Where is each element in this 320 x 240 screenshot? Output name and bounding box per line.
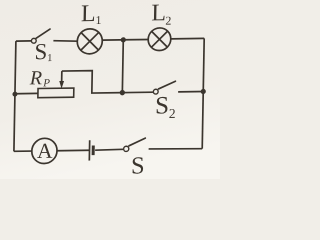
wire: right vertical <box>202 38 204 148</box>
ammeter A1 <box>32 138 58 164</box>
rheostat RP body <box>38 88 74 98</box>
label RP <box>30 71 50 87</box>
node: middle junction dot <box>120 90 125 95</box>
lamp L1 <box>77 29 102 54</box>
switch S1 pivot <box>31 38 36 43</box>
switch S2 blade <box>158 81 175 89</box>
wire: L1 to L2 (through top junction) <box>102 38 148 41</box>
switch S pivot <box>124 146 129 151</box>
wire: middle vertical from top junction down <box>121 40 124 93</box>
label L2 <box>152 4 171 24</box>
wire: ammeter to battery <box>57 149 90 151</box>
label S1 <box>36 44 52 61</box>
wire: S to bottom-right corner <box>149 148 203 149</box>
switch S2 pivot <box>153 89 158 94</box>
label S <box>132 157 143 174</box>
wire: S1 to L1 <box>53 40 77 41</box>
label S2 <box>157 97 176 118</box>
wire: wiper lead up-right-down to middle junction <box>61 70 122 93</box>
label L1 <box>81 5 101 24</box>
wire: top-left to S1 <box>16 40 32 42</box>
wire: L2 to top-right corner <box>171 37 204 39</box>
wire: battery to switch S <box>95 148 123 151</box>
node: top junction dot <box>121 37 126 42</box>
wire: left vertical <box>14 41 16 151</box>
battery short plate <box>92 146 95 156</box>
wire: S2 to right junction <box>178 90 203 92</box>
wire: middle junction to S2 <box>122 91 153 93</box>
rheostat wiper arrow <box>61 71 63 82</box>
node: left junction dot <box>12 92 17 97</box>
lamp L2 <box>148 28 171 51</box>
switch S blade <box>129 138 145 146</box>
node: right junction dot <box>201 89 206 94</box>
battery long plate <box>88 140 90 160</box>
wire: bottom-left corner to ammeter <box>14 150 32 152</box>
wire: left junction to rheostat <box>15 92 38 94</box>
label A (ammeter) <box>37 144 52 158</box>
switch S1 blade <box>36 29 50 38</box>
